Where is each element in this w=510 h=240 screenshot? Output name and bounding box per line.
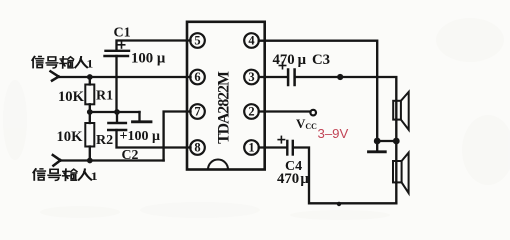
pin 2 — [244, 104, 259, 119]
label 信号输入1 (top input) — [32, 56, 93, 70]
svg-text:470 μ: 470 μ — [277, 171, 309, 187]
capacitor C3 — [288, 70, 295, 86]
node: C3 output junction — [337, 74, 343, 80]
wire C4 bottom run — [294, 148, 396, 204]
wire pin 3 to C3 — [259, 76, 287, 78]
svg-text:10K: 10K — [57, 129, 84, 145]
C1 plus sign — [118, 42, 124, 48]
svg-text:5: 5 — [194, 34, 200, 48]
ground G1 near C2 — [133, 112, 152, 122]
input terminal arrow 2 — [53, 155, 61, 166]
IC notch — [208, 160, 228, 170]
pin 8 — [190, 140, 205, 155]
svg-text:C1: C1 — [114, 26, 131, 41]
capacitor C1 — [105, 41, 191, 113]
pin 5 — [190, 33, 205, 48]
node: input2/R2 junction — [87, 158, 93, 164]
svg-text:TDA2822M: TDA2822M — [215, 71, 232, 144]
capacitor C2 — [108, 112, 190, 148]
svg-text:470 μ: 470 μ — [273, 52, 307, 68]
svg-text:7: 7 — [194, 105, 200, 119]
node: input1/R1 junction — [87, 74, 93, 80]
resistor R2 — [85, 112, 94, 161]
pin 6 — [190, 70, 205, 85]
wire ground row — [90, 111, 140, 113]
wire pin 2 to Vcc — [259, 110, 311, 112]
wire junction row — [377, 140, 396, 142]
C3 plus sign — [279, 62, 285, 68]
svg-text:3–9V: 3–9V — [318, 126, 349, 141]
input terminal arrow 1 — [51, 71, 59, 80]
svg-text:100 μ: 100 μ — [131, 51, 166, 67]
node: C1/C2 row junction — [114, 109, 120, 115]
wire pin 4 top run — [259, 41, 377, 141]
svg-text:R1: R1 — [96, 89, 113, 104]
pin 1 — [244, 140, 259, 155]
capacitor C4 — [287, 141, 293, 155]
svg-text:C3: C3 — [312, 52, 330, 68]
wire input2 line — [61, 159, 164, 161]
node: right speaker-row junction — [393, 138, 400, 145]
svg-text:R2: R2 — [96, 133, 113, 148]
label 信号输入1 (bottom input) — [33, 169, 97, 183]
node: R1/R2/row junction — [87, 109, 93, 115]
speaker SP1 — [393, 92, 409, 130]
ground G2 — [369, 141, 386, 152]
C4 plus sign — [278, 136, 284, 142]
pin 7 — [190, 104, 205, 119]
svg-text:+100 μ: +100 μ — [120, 129, 160, 144]
svg-text:1: 1 — [248, 141, 254, 155]
resistor R1 — [85, 77, 94, 112]
svg-text:2: 2 — [248, 105, 254, 119]
Vcc terminal circle — [310, 110, 316, 116]
wire pin 1 to C4 — [259, 146, 286, 148]
pin 4 — [244, 33, 259, 48]
wire input1 to pin 6 — [59, 76, 191, 78]
node: left speaker-row junction — [374, 138, 381, 145]
node: bottom wire bump — [337, 202, 341, 206]
svg-text:6: 6 — [194, 70, 200, 84]
svg-text:10K: 10K — [58, 89, 85, 105]
speaker SP2 — [393, 153, 409, 193]
wire C3 to speaker column — [296, 77, 397, 203]
pin 3 — [244, 70, 259, 85]
svg-text:C2: C2 — [122, 147, 139, 162]
svg-text:4: 4 — [248, 34, 255, 48]
svg-text:3: 3 — [248, 70, 254, 84]
wire input2 up to pin 7 — [164, 112, 191, 161]
svg-text:8: 8 — [194, 141, 200, 155]
IC U1 TDA2822M body — [187, 22, 265, 170]
